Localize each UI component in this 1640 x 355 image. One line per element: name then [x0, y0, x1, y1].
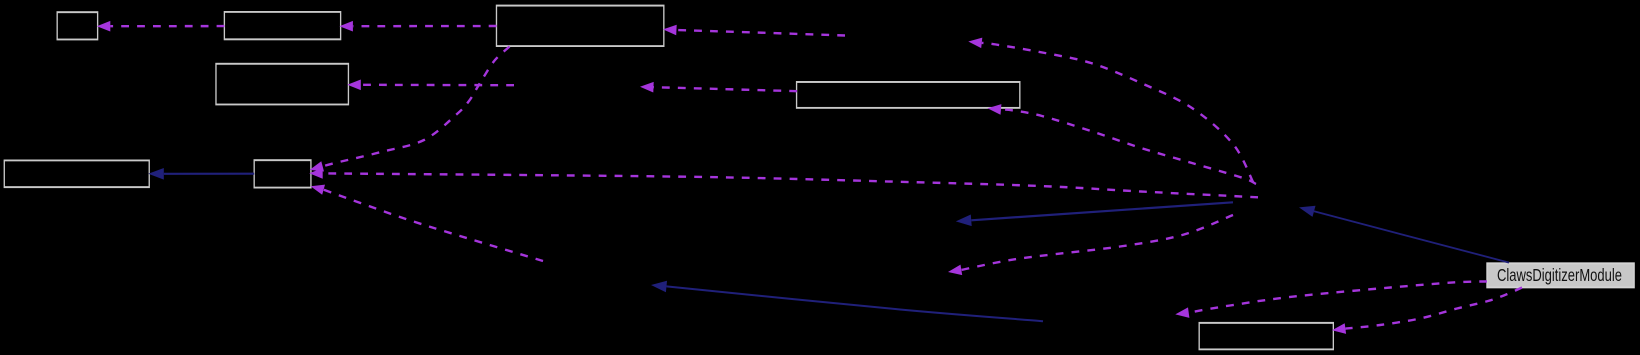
edge dashed Claws to invis2	[1175, 281, 1487, 318]
edge dashed invis3 to B5	[311, 185, 543, 261]
node box B3b	[215, 63, 349, 106]
node box B6	[796, 81, 1021, 109]
node box B2	[224, 11, 342, 40]
edge dashed hub to B5	[309, 168, 1258, 197]
edge dashed B2 to B1	[97, 21, 225, 32]
edge dashed hub to invis4	[968, 38, 1253, 182]
edge dashed B6 to invis1	[640, 82, 797, 93]
label ClawsDigitizerModule	[1497, 266, 1622, 284]
edge dashed B3 to B2	[339, 21, 496, 32]
edge dashed hub to invis6	[948, 215, 1233, 275]
edge dashed invis4 to B3	[663, 25, 845, 36]
node box B1	[57, 11, 99, 40]
edge dashed invis1 to B3b	[347, 80, 514, 91]
node box B7	[1199, 322, 1335, 350]
node box B5	[254, 159, 312, 188]
edge dashed Claws to B7	[1332, 288, 1522, 334]
node box B3	[496, 5, 665, 47]
edge solid hub to invis5	[956, 202, 1233, 226]
edge dashed B3 to B5	[310, 47, 510, 172]
node box ClawsDigitizerModule	[1486, 262, 1635, 288]
edge dashed hub to B6	[988, 104, 1257, 184]
edge solid Claws to hub	[1299, 206, 1509, 263]
edge solid B5 to B4	[148, 168, 254, 180]
node box B4	[4, 160, 150, 189]
edge solid invis2 to invis3	[651, 281, 1043, 322]
